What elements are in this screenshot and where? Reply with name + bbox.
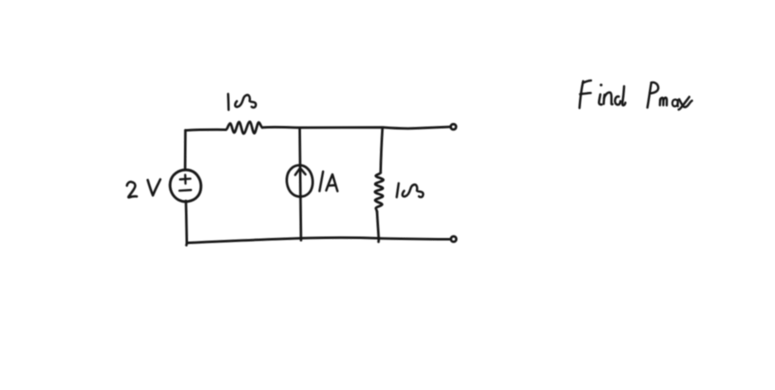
current source I1 arrow head [295, 168, 305, 175]
word Find: letter d [615, 96, 620, 104]
word Find: letter i [600, 84, 603, 87]
wire bottom [187, 238, 450, 243]
current source label 1A [320, 172, 338, 192]
wire left vertical upper [184, 130, 187, 170]
word Pmax: letter P [647, 83, 651, 108]
resistor R2 1ohm (vertical zigzag) [375, 173, 384, 212]
wire right branch lower [377, 212, 379, 242]
terminal bottom-right [451, 236, 456, 241]
current source I1 circle [287, 165, 313, 196]
wire top middle to right [262, 127, 450, 129]
word Find: letter n [603, 95, 606, 104]
terminal top-right [451, 124, 456, 129]
word Pmax: letter a [672, 100, 678, 107]
word Pmax: letter m [659, 99, 662, 105]
voltage source V1 plus-minus symbol [179, 175, 191, 191]
wire right branch upper [381, 128, 383, 173]
resistor R2 value label 1ohm [397, 183, 423, 197]
annotation text: Find Pmax [580, 81, 693, 110]
word Pmax: letter x [679, 99, 692, 107]
voltage source V1 circle [170, 170, 201, 202]
node A: junction wire of current source branch [300, 128, 301, 240]
word Find: letter F [580, 81, 584, 108]
wire top-left segment [186, 128, 226, 131]
resistor R1 1ohm (top zigzag) [226, 122, 262, 134]
voltage source value label 2 V [127, 179, 160, 197]
wire left vertical lower [185, 201, 188, 245]
resistor R1 value label 1ohm [228, 94, 256, 110]
